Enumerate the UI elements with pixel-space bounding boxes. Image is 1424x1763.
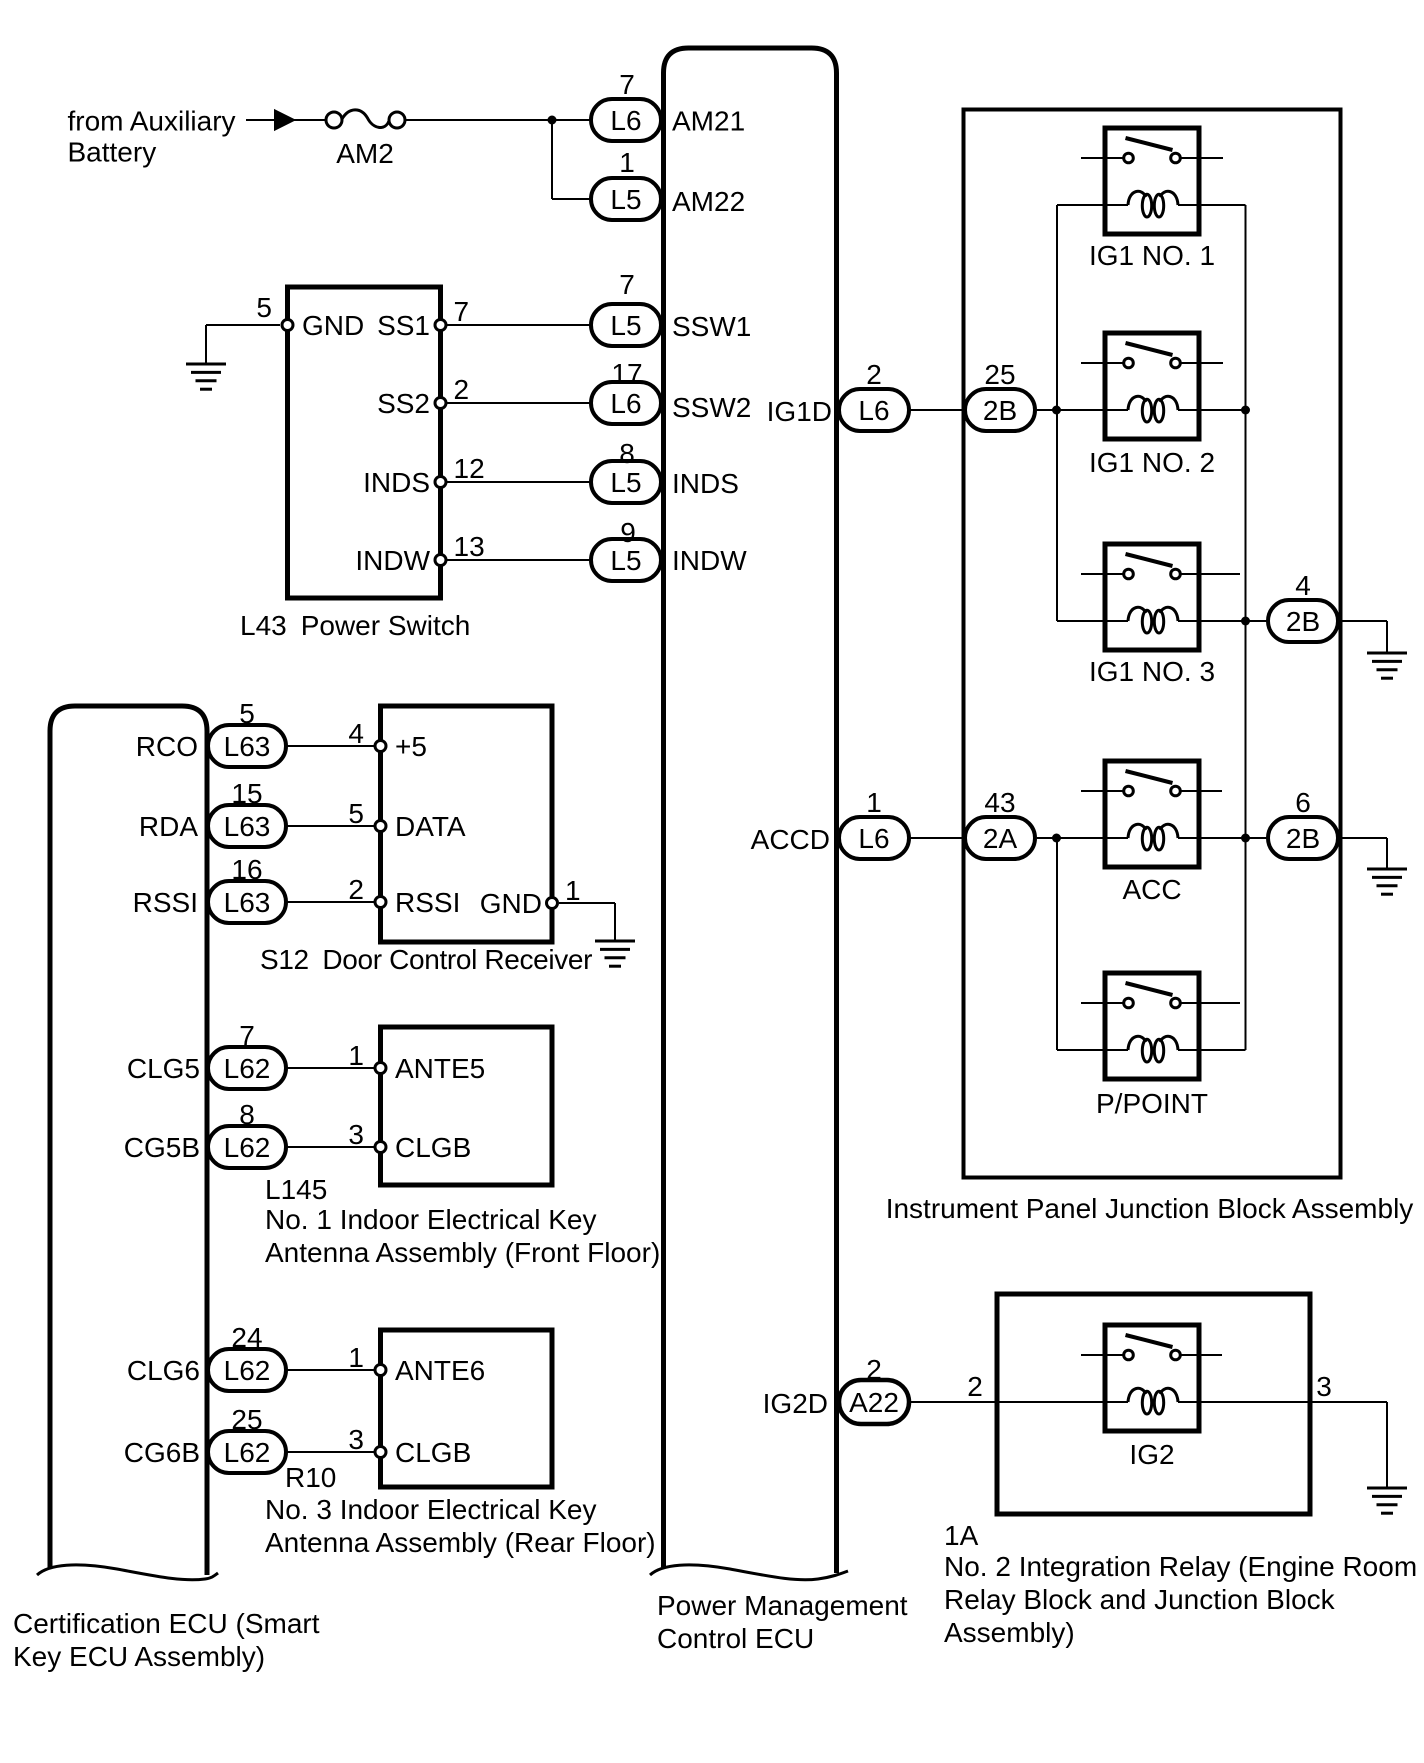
svg-text:DATA: DATA	[395, 811, 466, 842]
svg-text:ACCD: ACCD	[751, 824, 830, 855]
svg-text:CG5B: CG5B	[124, 1132, 200, 1163]
svg-text:25: 25	[984, 359, 1015, 390]
svg-text:5: 5	[256, 292, 272, 323]
svg-text:1: 1	[619, 147, 635, 178]
svg-text:24: 24	[231, 1322, 262, 1353]
svg-text:9: 9	[620, 517, 636, 548]
svg-text:No. 1 Indoor Electrical Key: No. 1 Indoor Electrical Key	[265, 1204, 597, 1235]
svg-text:CG6B: CG6B	[124, 1437, 200, 1468]
svg-text:2: 2	[866, 1354, 882, 1385]
svg-text:R10: R10	[285, 1462, 336, 1493]
svg-text:7: 7	[619, 269, 635, 300]
svg-text:L5: L5	[610, 545, 641, 576]
svg-text:L62: L62	[224, 1053, 271, 1084]
svg-text:CLG6: CLG6	[127, 1355, 200, 1386]
svg-text:12: 12	[454, 453, 485, 484]
svg-text:CLGB: CLGB	[395, 1437, 471, 1468]
svg-text:2: 2	[348, 874, 364, 905]
svg-text:Relay Block and Junction Block: Relay Block and Junction Block	[944, 1584, 1336, 1615]
svg-text:Power Management: Power Management	[657, 1590, 908, 1621]
svg-text:L62: L62	[224, 1355, 271, 1386]
svg-text:L6: L6	[610, 105, 641, 136]
svg-text:2: 2	[454, 374, 470, 405]
svg-text:IG2D: IG2D	[763, 1388, 828, 1419]
svg-text:4: 4	[348, 718, 364, 749]
svg-text:3: 3	[348, 1424, 364, 1455]
svg-text:Assembly): Assembly)	[944, 1617, 1075, 1648]
svg-text:S12 Door Control Receiver: S12 Door Control Receiver	[260, 944, 592, 975]
svg-text:ANTE6: ANTE6	[395, 1355, 485, 1386]
svg-text:Antenna Assembly (Front Floor): Antenna Assembly (Front Floor)	[265, 1237, 660, 1268]
svg-text:2: 2	[866, 359, 882, 390]
svg-text:L5: L5	[610, 184, 641, 215]
svg-text:IG1 NO. 1: IG1 NO. 1	[1089, 240, 1215, 271]
svg-text:7: 7	[619, 69, 635, 100]
svg-text:A22: A22	[849, 1387, 899, 1418]
svg-text:L6: L6	[858, 823, 889, 854]
svg-text:6: 6	[1295, 787, 1311, 818]
svg-text:Antenna Assembly (Rear Floor): Antenna Assembly (Rear Floor)	[265, 1527, 656, 1558]
svg-text:Certification ECU (Smart: Certification ECU (Smart	[13, 1608, 320, 1639]
svg-text:IG1 NO. 2: IG1 NO. 2	[1089, 447, 1215, 478]
svg-text:SS1: SS1	[377, 310, 430, 341]
svg-text:RSSI: RSSI	[395, 887, 460, 918]
svg-text:INDS: INDS	[363, 467, 430, 498]
svg-text:5: 5	[239, 698, 255, 729]
svg-text:SS2: SS2	[377, 388, 430, 419]
svg-text:INDW: INDW	[355, 545, 430, 576]
svg-text:L5: L5	[610, 310, 641, 341]
svg-text:No. 3 Indoor Electrical Key: No. 3 Indoor Electrical Key	[265, 1494, 597, 1525]
svg-text:AM2: AM2	[336, 138, 394, 169]
svg-text:L6: L6	[858, 395, 889, 426]
svg-text:1A: 1A	[944, 1520, 979, 1551]
svg-text:7: 7	[454, 296, 470, 327]
svg-text:INDW: INDW	[672, 545, 747, 576]
svg-text:GND: GND	[302, 310, 364, 341]
svg-text:IG1D: IG1D	[767, 396, 832, 427]
svg-text:IG1 NO. 3: IG1 NO. 3	[1089, 656, 1215, 687]
svg-text:1: 1	[348, 1040, 364, 1071]
svg-text:AM21: AM21	[672, 106, 745, 137]
svg-text:Control ECU: Control ECU	[657, 1623, 814, 1654]
svg-text:1: 1	[348, 1342, 364, 1373]
svg-text:L63: L63	[224, 811, 271, 842]
svg-text:13: 13	[454, 531, 485, 562]
svg-text:17: 17	[611, 358, 642, 389]
svg-text:SSW2: SSW2	[672, 392, 751, 423]
svg-text:Instrument Panel Junction Bloc: Instrument Panel Junction Block Assembly	[886, 1193, 1414, 1224]
svg-text:AM22: AM22	[672, 186, 745, 217]
svg-text:No. 2 Integration Relay (Engin: No. 2 Integration Relay (Engine Room	[944, 1551, 1417, 1582]
svg-text:8: 8	[619, 438, 635, 469]
svg-text:CLG5: CLG5	[127, 1053, 200, 1084]
svg-text:INDS: INDS	[672, 468, 739, 499]
svg-text:RCO: RCO	[136, 731, 198, 762]
svg-text:L6: L6	[610, 388, 641, 419]
svg-text:L145: L145	[265, 1174, 327, 1205]
svg-text:3: 3	[1316, 1371, 1332, 1402]
svg-text:2B: 2B	[1286, 606, 1320, 637]
svg-text:Key ECU Assembly): Key ECU Assembly)	[13, 1641, 265, 1672]
svg-text:ACC: ACC	[1122, 874, 1181, 905]
svg-text:RSSI: RSSI	[133, 887, 198, 918]
svg-text:SSW1: SSW1	[672, 311, 751, 342]
svg-text:RDA: RDA	[139, 811, 198, 842]
svg-text:8: 8	[239, 1099, 255, 1130]
svg-text:CLGB: CLGB	[395, 1132, 471, 1163]
svg-text:2: 2	[967, 1371, 983, 1402]
svg-text:L63: L63	[224, 887, 271, 918]
svg-text:Battery: Battery	[68, 137, 157, 168]
svg-text:GND: GND	[480, 888, 542, 919]
svg-text:L5: L5	[610, 467, 641, 498]
svg-text:43: 43	[984, 787, 1015, 818]
svg-text:15: 15	[231, 778, 262, 809]
svg-text:16: 16	[231, 854, 262, 885]
svg-text:2B: 2B	[983, 395, 1017, 426]
svg-text:P/POINT: P/POINT	[1096, 1088, 1208, 1119]
svg-text:L63: L63	[224, 731, 271, 762]
svg-text:7: 7	[239, 1020, 255, 1051]
svg-text:L62: L62	[224, 1132, 271, 1163]
svg-text:ANTE5: ANTE5	[395, 1053, 485, 1084]
svg-text:IG2: IG2	[1129, 1439, 1174, 1470]
svg-text:L62: L62	[224, 1437, 271, 1468]
svg-text:2A: 2A	[983, 823, 1018, 854]
svg-text:from Auxiliary: from Auxiliary	[68, 106, 236, 137]
svg-text:25: 25	[231, 1404, 262, 1435]
svg-text:4: 4	[1295, 570, 1311, 601]
svg-text:L43 Power Switch: L43 Power Switch	[240, 610, 470, 641]
svg-text:5: 5	[348, 798, 364, 829]
svg-text:3: 3	[348, 1119, 364, 1150]
svg-text:1: 1	[866, 787, 882, 818]
svg-text:+5: +5	[395, 731, 427, 762]
svg-text:2B: 2B	[1286, 823, 1320, 854]
svg-text:1: 1	[565, 875, 581, 906]
